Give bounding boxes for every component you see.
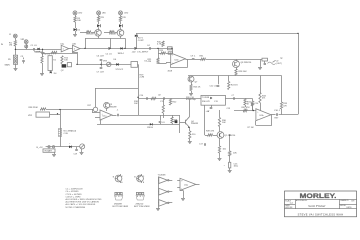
svg-text:10K: 10K [64, 60, 68, 62]
svg-text:R30 47K: R30 47K [202, 101, 210, 103]
svg-text:B.F.: B.F. [352, 200, 356, 202]
svg-text:C2 .01: C2 .01 [106, 54, 113, 56]
svg-text:CTL_INPUT: CTL_INPUT [137, 52, 149, 54]
svg-text:BOTTOM VIEW: BOTTOM VIEW [134, 206, 150, 208]
svg-text:4.7K: 4.7K [157, 44, 162, 46]
svg-text:STEVE VAI SWITCHLESS WAH: STEVE VAI SWITCHLESS WAH [298, 212, 344, 216]
svg-text:9V BATT: 9V BATT [45, 150, 53, 153]
svg-text:(OUT): (OUT) [276, 63, 282, 65]
svg-text:BOTTOM VIEW: BOTTOM VIEW [113, 206, 129, 208]
svg-text:R6 470: R6 470 [34, 52, 42, 54]
svg-text:ALL DIODES = 1N914 UNLESS NOTE: ALL DIODES = 1N914 UNLESS NOTED [66, 198, 103, 201]
svg-text:B_+9V: B_+9V [37, 147, 44, 149]
svg-text:C1 .01: C1 .01 [31, 45, 38, 47]
svg-text:10K: 10K [77, 20, 81, 22]
svg-text:ALL CAPS +/- 10% 50V UNLESS: ALL CAPS +/- 10% 50V UNLESS [66, 203, 96, 206]
svg-text:1N914: 1N914 [147, 127, 154, 129]
svg-text:Q5 2N5210: Q5 2N5210 [225, 135, 236, 137]
svg-text:47K: 47K [148, 61, 152, 63]
svg-text:LW30: LW30 [347, 207, 352, 209]
svg-text:TC4558: TC4558 [158, 175, 167, 177]
svg-text:ALL RESISTORS 1/4W 5% CARBON: ALL RESISTORS 1/4W 5% CARBON [66, 201, 100, 204]
svg-text:LED: LED [102, 13, 106, 15]
svg-text:C9 .1: C9 .1 [191, 56, 197, 58]
svg-text:R26 1K: R26 1K [194, 87, 202, 89]
svg-text:MORLEY.: MORLEY. [300, 193, 337, 200]
svg-text:10K: 10K [134, 103, 138, 105]
svg-text:R38 220K: R38 220K [29, 107, 39, 109]
svg-text:1M: 1M [9, 45, 12, 47]
svg-text:1N914: 1N914 [118, 53, 125, 55]
svg-text:R? 1M: R? 1M [248, 127, 254, 129]
svg-text:2.2M: 2.2M [140, 77, 145, 79]
svg-text:LED: LED [78, 13, 82, 15]
svg-text:C7 .047: C7 .047 [97, 72, 105, 74]
svg-text:R28 10K: R28 10K [239, 71, 248, 73]
svg-text:Q8 2N5210: Q8 2N5210 [241, 62, 252, 64]
svg-text:NOTED OTHERWISE: NOTED OTHERWISE [66, 207, 86, 209]
svg-text:C12 .01: C12 .01 [210, 86, 218, 88]
svg-text:2N5089: 2N5089 [191, 123, 199, 125]
svg-text:47K 4700p: 47K 4700p [186, 99, 197, 101]
svg-text:R24 1K: R24 1K [231, 85, 239, 87]
svg-text:R32 47K: R32 47K [242, 107, 251, 109]
svg-text:10K: 10K [233, 153, 237, 155]
svg-text:VTL5C2: VTL5C2 [116, 69, 124, 71]
svg-text:4/21/98: 4/21/98 [285, 207, 293, 209]
svg-text:GAIN: GAIN [5, 64, 11, 67]
svg-text:MODEL: MODEL [340, 205, 346, 207]
svg-text:+9V: +9V [206, 111, 210, 113]
svg-text:C6 .047: C6 .047 [97, 56, 105, 58]
svg-text:R39 47K: R39 47K [206, 131, 215, 133]
svg-text:C16 .1: C16 .1 [274, 110, 281, 112]
svg-text:CONT: CONT [138, 40, 145, 42]
svg-text:Scott Flicker: Scott Flicker [308, 204, 326, 208]
svg-text:10K: 10K [222, 122, 226, 124]
svg-text:LED: LED [124, 13, 128, 15]
svg-text:2N5089: 2N5089 [110, 106, 118, 108]
svg-text:TC4558: TC4558 [202, 97, 210, 99]
